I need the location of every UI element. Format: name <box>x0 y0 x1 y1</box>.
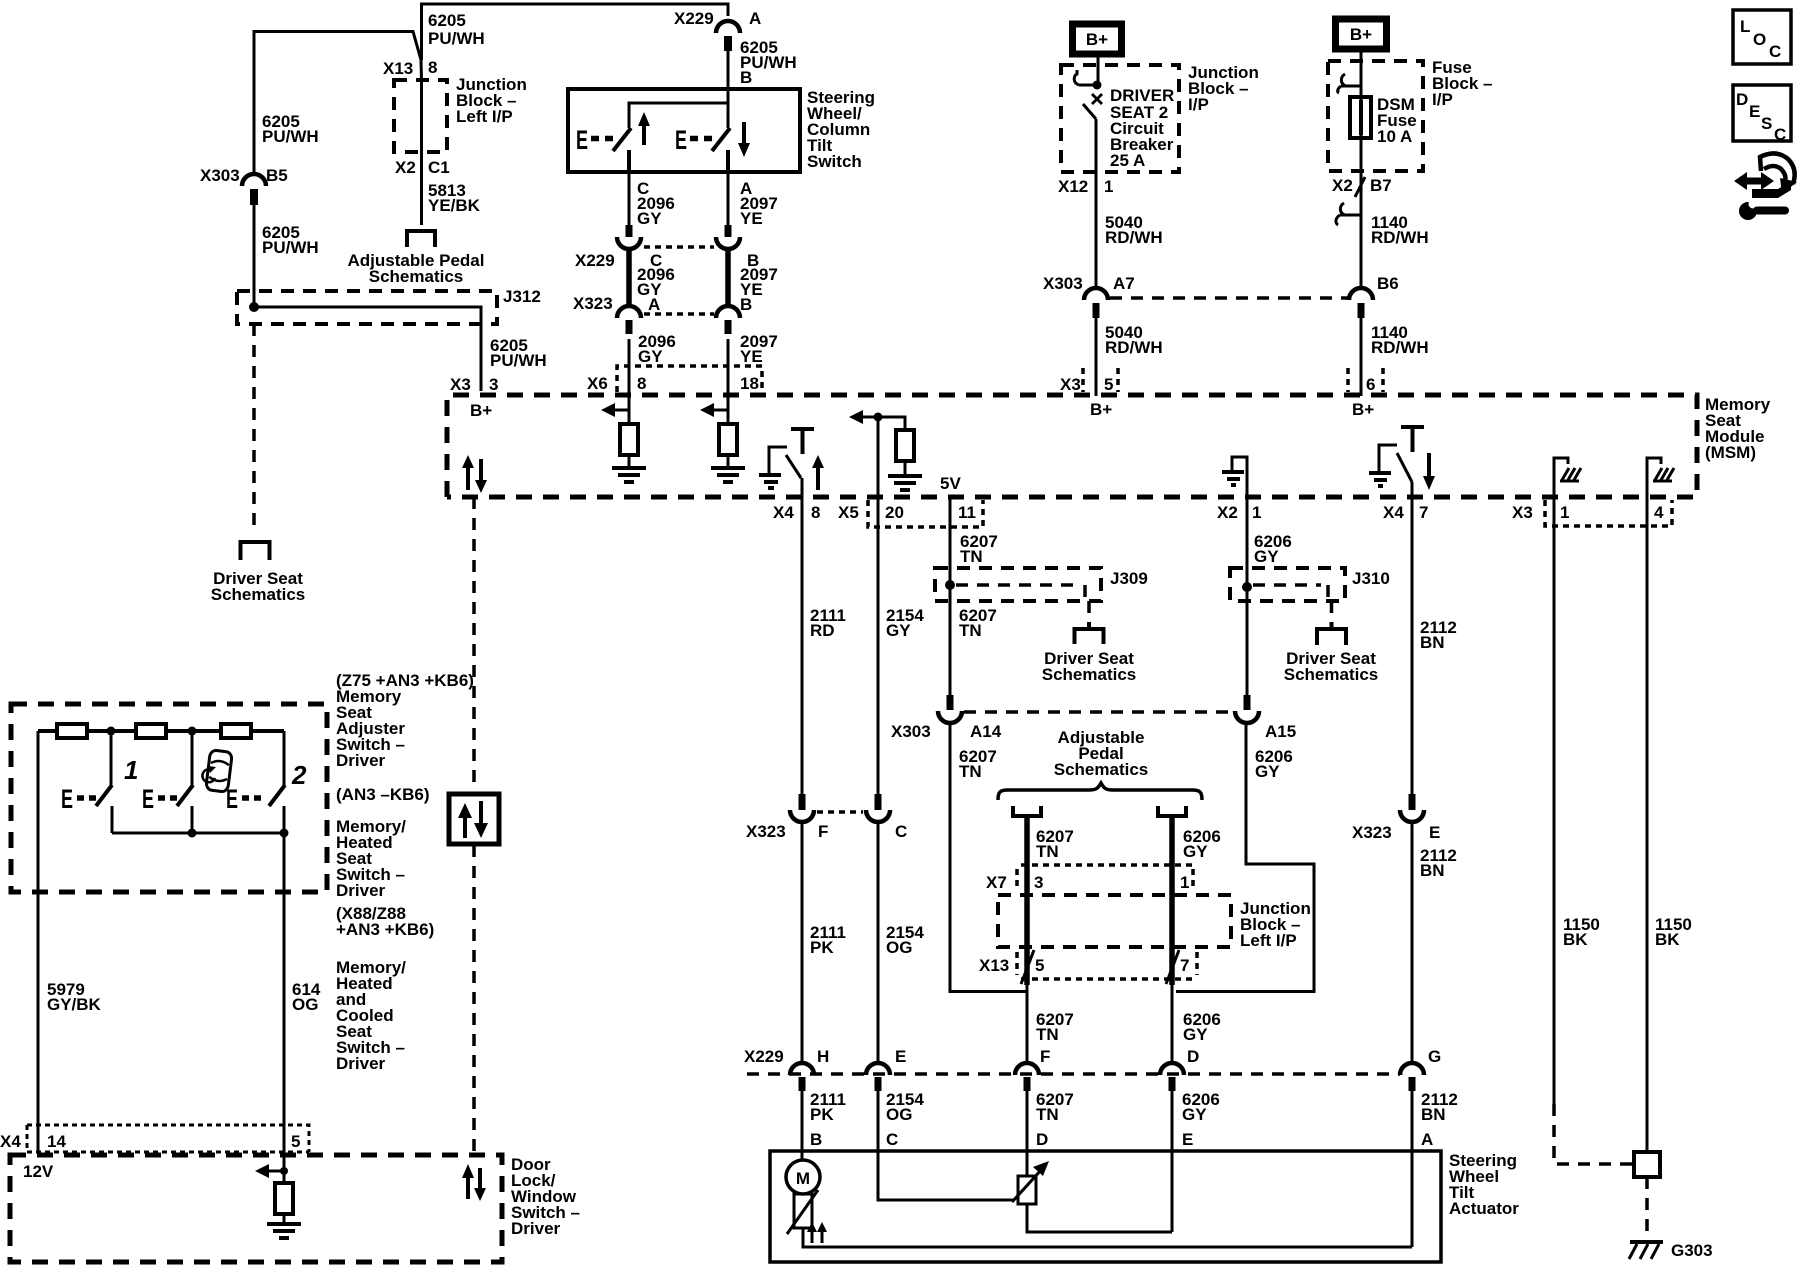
actuator motor M <box>786 1160 820 1194</box>
svg-text:18: 18 <box>740 374 759 393</box>
wire stub 2097 between connectors <box>725 248 731 307</box>
svg-text:E: E <box>142 784 154 814</box>
connector X229 row labels <box>575 251 759 270</box>
label DRIVER SEAT 2 Circuit Breaker 25 A <box>1110 86 1174 170</box>
svg-text:Schematics: Schematics <box>369 267 464 286</box>
svg-text:I/P: I/P <box>1432 90 1453 109</box>
label 6206 GY E <box>1182 1090 1220 1149</box>
fork from pedal schematics (6207) <box>1013 806 1041 985</box>
wire 6205 PU/WH B into switch <box>727 51 730 89</box>
off-page fork Driver Seat Schematics (J310) <box>1317 622 1346 645</box>
connector X229 G arc <box>1400 1047 1441 1091</box>
connector X13 pin 8 labels <box>383 58 437 78</box>
svg-text:GY/BK: GY/BK <box>47 995 102 1014</box>
label 6205 PU/WH B <box>740 38 797 87</box>
svg-text:X13: X13 <box>979 956 1009 975</box>
connector X229 row label <box>744 1047 784 1066</box>
svg-text:X4: X4 <box>1383 503 1404 522</box>
svg-text:B7: B7 <box>1370 176 1392 195</box>
MSM switch at X4-7 with T contact and ground <box>1369 427 1424 497</box>
svg-text:X323: X323 <box>573 294 613 313</box>
wire 1140 RD/WH upper <box>1360 171 1363 289</box>
label G303 <box>1671 1241 1713 1260</box>
brace for Adjustable Pedal Schematics <box>998 783 1202 800</box>
svg-text:GY: GY <box>886 621 911 640</box>
svg-text:8: 8 <box>811 503 820 522</box>
splice J310 dashed box <box>1230 568 1345 601</box>
label (AN3 -KB6) <box>336 785 430 804</box>
splice J312 junction dot <box>249 302 259 312</box>
label 2112 BN (lower) <box>1420 846 1457 880</box>
svg-text:E: E <box>1182 1130 1193 1149</box>
label 6207 TN (below A14) <box>959 747 997 781</box>
svg-text:A: A <box>648 295 660 314</box>
connector X12 pin 1 labels <box>1058 177 1113 196</box>
connector X2 B7 labels with slash <box>1332 176 1392 197</box>
label 5979 GY/BK <box>47 980 102 1014</box>
svg-text:X13: X13 <box>383 59 413 78</box>
MSM arrow up at X4-8 <box>812 455 824 490</box>
MSM ground at X2-1 <box>1222 457 1247 497</box>
svg-text:B+: B+ <box>470 401 492 420</box>
label B+ at MSM X3-3 <box>470 401 492 420</box>
label Driver Seat Schematics (J309) <box>1042 649 1137 684</box>
svg-text:A7: A7 <box>1113 274 1135 293</box>
wire 2096 GY from switch <box>628 172 631 228</box>
label Door Lock/ Window Switch - Driver <box>511 1155 580 1238</box>
wire 1150 BK (X3-1) <box>1554 497 1632 1164</box>
connector X229 C terminal <box>617 225 641 249</box>
MSM chassis stub at X3-4 <box>1647 458 1674 497</box>
wire stub 2096 between connectors <box>626 248 632 307</box>
svg-text:8: 8 <box>637 374 646 393</box>
up-down arrow box on dashed wire <box>449 794 499 844</box>
door lock window switch dashed box <box>10 1155 502 1262</box>
label C 2096 GY <box>637 179 675 228</box>
connector X303 B5 labels <box>200 166 288 185</box>
fuse terminal hook upper <box>1338 74 1361 93</box>
svg-text:X12: X12 <box>1058 177 1088 196</box>
MSM switch at X4-8 with T contact and ground <box>759 429 814 497</box>
dashed link X323 A-B <box>644 312 714 316</box>
svg-text:PU/WH: PU/WH <box>262 127 319 146</box>
svg-text:RD/WH: RD/WH <box>1371 338 1429 357</box>
connector X6 pin labels <box>587 374 759 393</box>
svg-text:C: C <box>895 822 907 841</box>
actuator bottom bus wire <box>803 1228 1412 1247</box>
svg-text:Left I/P: Left I/P <box>1240 931 1297 950</box>
splice J312 dashed box <box>237 291 497 324</box>
svg-text:Left I/P: Left I/P <box>456 107 513 126</box>
svg-text:B+: B+ <box>1352 400 1374 419</box>
dashed link X303 A14-A15 <box>964 710 1232 714</box>
svg-text:X2: X2 <box>395 158 416 177</box>
wire internal feed to tilt-up switch <box>629 89 728 128</box>
svg-text:X323: X323 <box>1352 823 1392 842</box>
wire 6206 GY from J310 to X303 A15 <box>1246 587 1249 696</box>
dashed wire J309 to Driver Seat Schematics <box>1087 601 1091 624</box>
svg-text:1: 1 <box>1560 503 1569 522</box>
svg-text:OG: OG <box>292 995 318 1014</box>
wire 614 OG <box>283 833 286 1185</box>
dashed link X303 A7-B6 <box>1110 296 1348 300</box>
label (X88/Z88 +AN3 +KB6) <box>336 904 434 939</box>
svg-text:TN: TN <box>1036 1105 1059 1124</box>
MSM resistor to ground (wire 2096) <box>601 396 646 482</box>
svg-text:X303: X303 <box>891 722 931 741</box>
svg-text:C: C <box>886 1130 898 1149</box>
svg-text:X2: X2 <box>1217 503 1238 522</box>
svg-text:X3: X3 <box>450 375 471 394</box>
connector X3 pin 6 label <box>1348 368 1383 394</box>
svg-text:B+: B+ <box>1090 400 1112 419</box>
connector X229 pin A labels <box>674 9 761 28</box>
svg-text:YE: YE <box>740 209 763 228</box>
label (Z75 +AN3 +KB6) <box>336 671 474 690</box>
svg-text:1: 1 <box>1252 503 1261 522</box>
memory switch set (car icon) <box>142 731 193 833</box>
svg-text:B+: B+ <box>1086 30 1108 49</box>
connector X6 dashed sub-box <box>617 366 762 392</box>
wire 6207 TN to actuator D <box>1026 1091 1029 1176</box>
label 6206 GY (below A15) <box>1255 747 1293 781</box>
actuator potentiometer element <box>1018 1176 1172 1232</box>
wire 5979 GY/BK <box>37 731 40 1152</box>
connector X4 pin 8 labels <box>773 503 820 522</box>
connector X2 pin C1 labels <box>395 158 450 177</box>
wire 2112 BN to actuator A <box>1411 1091 1414 1247</box>
wire 2154 OG to X229 E <box>877 822 880 1064</box>
wire 6205 PU/WH from J312 to X3 pin 3 <box>254 307 481 391</box>
svg-text:G: G <box>1428 1047 1441 1066</box>
svg-text:S: S <box>1761 114 1772 133</box>
wire 6206 GY from X2-1 to J310 <box>1246 497 1249 587</box>
svg-text:C1: C1 <box>428 158 450 177</box>
switch tilt down (E contact) <box>675 125 730 155</box>
connector X13 row labels <box>979 952 1197 979</box>
MSM resistor to ground (wire 2097) <box>700 396 745 482</box>
connector X323 row label <box>573 294 613 313</box>
connector X3 pin 3 labels <box>450 375 498 394</box>
connector X229 H arc <box>790 1047 829 1091</box>
svg-text:1: 1 <box>1180 873 1189 892</box>
label Junction Block - Left I/P (lower) <box>1240 899 1311 950</box>
label Adjustable Pedal Schematics <box>348 251 485 286</box>
label wire 5813 YE/BK <box>428 181 481 215</box>
svg-text:20: 20 <box>885 503 904 522</box>
svg-text:8: 8 <box>428 58 437 77</box>
connector X7 pins labels <box>986 873 1189 892</box>
svg-text:7: 7 <box>1419 503 1428 522</box>
wire 5040 RD/WH lower to X3-5 <box>1095 318 1098 396</box>
door switch resistor to ground <box>255 1164 301 1238</box>
svg-text:X323: X323 <box>746 822 786 841</box>
svg-text:GY: GY <box>637 209 662 228</box>
label Adjustable Pedal Schematics <box>1054 728 1149 779</box>
svg-text:Driver: Driver <box>336 751 386 770</box>
label Memory/ Heated Seat Switch - Driver <box>336 817 406 900</box>
svg-text:E: E <box>576 125 588 155</box>
switch tilt up (E contact) <box>576 125 631 155</box>
svg-text:OG: OG <box>886 938 912 957</box>
connector X323 F C labels <box>746 822 907 841</box>
wire 5040 RD/WH upper <box>1095 172 1098 289</box>
svg-text:A15: A15 <box>1265 722 1296 741</box>
svg-text:RD/WH: RD/WH <box>1371 228 1429 247</box>
svg-text:F: F <box>818 822 828 841</box>
wire 6207 TN from J309 to X303 A14 <box>949 585 952 696</box>
label Memory Seat Adjuster Switch - Driver <box>336 687 405 770</box>
svg-text:GY: GY <box>1255 762 1280 781</box>
svg-text:B: B <box>740 68 752 87</box>
label Junction Block - I/P <box>1188 63 1259 114</box>
svg-text:PU/WH: PU/WH <box>490 351 547 370</box>
svg-text:BK: BK <box>1563 930 1588 949</box>
svg-text:PK: PK <box>810 938 834 957</box>
label DSM Fuse 10 A <box>1377 95 1417 146</box>
label 2097 YE B <box>740 265 778 314</box>
svg-text:4: 4 <box>1654 503 1664 522</box>
adjuster switch lower bus <box>112 829 289 838</box>
wire 2112 BN from X323 E to X229 G <box>1411 822 1414 1064</box>
svg-text:5: 5 <box>291 1132 300 1151</box>
fuse DSM 10A symbol <box>1350 51 1371 171</box>
label Fuse Block - I/P <box>1432 58 1492 109</box>
svg-text:X3: X3 <box>1512 503 1533 522</box>
label 6205 PU/WH (at X3 pin 3) <box>490 336 547 370</box>
svg-text:RD/WH: RD/WH <box>1105 228 1163 247</box>
connector X5 pins 20 11 labels <box>838 503 976 522</box>
svg-text:Driver: Driver <box>336 881 386 900</box>
connector X323 A arc <box>617 306 641 334</box>
svg-text:B5: B5 <box>266 166 288 185</box>
connector X2 pin 1 labels <box>1217 503 1261 522</box>
svg-text:E: E <box>675 125 687 155</box>
svg-text:L: L <box>1740 17 1750 36</box>
wire 2096 GY to X6-8 <box>628 339 631 396</box>
junction block I/P dashed box (circuit breaker) <box>1061 65 1179 172</box>
connector X323 B arc <box>716 306 740 334</box>
connector X229 D arc <box>1160 1047 1199 1091</box>
wire 6207 TN route into X13-5 from below <box>950 722 1034 992</box>
connector X229 E arc <box>866 1047 906 1091</box>
svg-text:5: 5 <box>1104 375 1113 394</box>
svg-text:E: E <box>61 784 73 814</box>
wire 2111 PK to X229 H <box>801 822 804 1064</box>
connector X3 pins 1 4 labels <box>1512 503 1664 522</box>
svg-text:6: 6 <box>1366 375 1375 394</box>
actuator position sensor wiper wire <box>878 1151 1049 1202</box>
label Junction Block - Left I/P <box>456 75 527 126</box>
label 6205 PU/WH (left upper) <box>262 112 319 146</box>
connector X4 pins 14 5 labels <box>0 1132 300 1151</box>
connector X3 pin 5 labels <box>1060 368 1118 394</box>
off-page fork to Adjustable Pedal Schematics <box>407 231 435 247</box>
svg-text:2: 2 <box>291 760 307 790</box>
wire 2111 PK to actuator B <box>801 1091 804 1160</box>
svg-text:PU/WH: PU/WH <box>428 29 485 48</box>
svg-text:BN: BN <box>1421 1105 1446 1124</box>
svg-text:B: B <box>740 295 752 314</box>
svg-text:A: A <box>749 9 761 28</box>
svg-text:D: D <box>1036 1130 1048 1149</box>
svg-text:Switch: Switch <box>807 152 862 171</box>
wire 6207 TN from X5-11 to J309 <box>949 497 952 585</box>
connector X229 A arc <box>716 21 740 51</box>
arrow down (tilt down) <box>738 122 750 157</box>
fuse terminal hook lower <box>1336 203 1361 225</box>
label 6205 PU/WH (top) <box>428 11 485 48</box>
actuator feedback rheostat <box>787 1190 818 1234</box>
label B+ at MSM X3-5 <box>1090 400 1112 419</box>
B+ power box 1 <box>1073 24 1122 54</box>
dashed wire to G303 <box>1645 1177 1649 1240</box>
label Memory Seat Module (MSM) <box>1705 395 1771 462</box>
label Driver Seat Schematics (J310) <box>1284 649 1379 684</box>
wire 2112 BN from X4-7 to X323 E <box>1411 497 1414 795</box>
memory seat module MSM dashed box <box>447 395 1697 497</box>
connector X229 row dashed line <box>747 1072 1400 1076</box>
svg-text:I/P: I/P <box>1188 95 1209 114</box>
connector X303 B5 arc <box>242 174 266 205</box>
label 5040 RD/WH (lower) <box>1105 323 1163 357</box>
svg-text:GY: GY <box>1183 842 1208 861</box>
label B+ at MSM X3-6 <box>1352 400 1374 419</box>
off-page fork Driver Seat Schematics (J309) <box>1075 622 1104 644</box>
label 6207 TN (below X13) <box>1036 1010 1074 1044</box>
wire 2154 GY from X5-20 to X323 C <box>877 497 880 795</box>
MSM chassis stub at X3-1 <box>1554 458 1581 497</box>
connector X3 sub-box pins 1 4 <box>1545 500 1672 526</box>
MSM internal up-down arrows (left) <box>462 455 487 493</box>
LOC reference box <box>1733 10 1791 64</box>
svg-text:GY: GY <box>1254 547 1279 566</box>
label J312 <box>503 287 541 306</box>
svg-text:GY: GY <box>1182 1105 1207 1124</box>
steering wheel tilt actuator box <box>770 1151 1441 1262</box>
label 2096 GY A <box>637 265 675 314</box>
actuator motion arrows <box>807 1222 827 1243</box>
label Driver Seat Schematics (left) <box>211 569 306 604</box>
svg-text:X7: X7 <box>986 873 1007 892</box>
svg-text:E: E <box>1429 823 1440 842</box>
label 2097 YE (lower) <box>740 332 778 366</box>
memory switch 2 <box>226 731 285 833</box>
svg-text:TN: TN <box>960 547 983 566</box>
switch output stubs <box>629 150 728 172</box>
svg-text:TN: TN <box>1036 1025 1059 1044</box>
connector X303 A7 labels <box>1043 274 1135 293</box>
svg-text:3: 3 <box>489 375 498 394</box>
label switch position 1 <box>124 755 138 785</box>
svg-text:Schematics: Schematics <box>211 585 306 604</box>
label 2111 PK B <box>810 1090 846 1149</box>
door switch up-down arrows <box>462 1164 486 1201</box>
svg-text:6205: 6205 <box>428 11 466 30</box>
svg-text:GY: GY <box>1183 1025 1208 1044</box>
svg-text:10 A: 10 A <box>1377 127 1412 146</box>
connector X323 F arc <box>790 794 814 822</box>
label A 2097 YE <box>740 179 778 228</box>
svg-text:Schematics: Schematics <box>1054 760 1149 779</box>
svg-text:D: D <box>1736 90 1748 109</box>
circuit breaker DRIVER SEAT 2 symbol <box>1074 56 1103 172</box>
svg-text:25 A: 25 A <box>1110 151 1145 170</box>
svg-text:M: M <box>796 1169 810 1188</box>
label 6206 GY (above J310) <box>1254 532 1292 566</box>
label 1140 RD/WH (lower) <box>1371 323 1429 357</box>
adjuster switch top bus with resistors <box>38 724 284 738</box>
svg-text:BN: BN <box>1420 861 1445 880</box>
svg-text:X2: X2 <box>1332 176 1353 195</box>
svg-text:X4: X4 <box>773 503 794 522</box>
svg-text:A14: A14 <box>970 722 1002 741</box>
label 614 OG <box>292 980 321 1014</box>
svg-text:G303: G303 <box>1671 1241 1713 1260</box>
connector X4 pin 7 labels <box>1383 503 1428 522</box>
svg-text:BK: BK <box>1655 930 1680 949</box>
wire 6206 GY below X13-7 <box>1171 985 1174 1064</box>
wire through junction block X13 <box>420 80 423 225</box>
label 12V <box>23 1162 54 1181</box>
fork from pedal schematics (6206) <box>1158 806 1186 985</box>
connector X323 E arc <box>1400 794 1424 822</box>
wire 6206 GY route into X13-7 from below <box>1166 722 1314 992</box>
svg-text:Driver: Driver <box>336 1054 386 1073</box>
svg-text:X303: X303 <box>1043 274 1083 293</box>
wire 1140 RD/WH lower to X3-6 <box>1360 318 1363 396</box>
svg-text:X5: X5 <box>838 503 859 522</box>
svg-text:F: F <box>1040 1047 1050 1066</box>
svg-text:TN: TN <box>959 762 982 781</box>
svg-text:X4: X4 <box>0 1132 21 1151</box>
svg-text:12V: 12V <box>23 1162 54 1181</box>
label 6207 TN (above A14) <box>959 606 997 640</box>
dashed wire J312 to Driver Seat Schematics <box>252 324 256 530</box>
label 2154 GY <box>886 606 924 640</box>
svg-text:GY: GY <box>638 347 663 366</box>
svg-text:5V: 5V <box>940 474 961 493</box>
label switch position 2 <box>291 760 307 790</box>
svg-text:YE/BK: YE/BK <box>428 196 481 215</box>
svg-text:RD/WH: RD/WH <box>1105 338 1163 357</box>
label 2154 OG C <box>886 1090 924 1149</box>
svg-text:5: 5 <box>1035 956 1044 975</box>
svg-text:OG: OG <box>886 1105 912 1124</box>
connector X323 E labels <box>1352 823 1440 842</box>
connector X5 sub-box <box>868 500 983 527</box>
ground splice box <box>1634 1152 1660 1177</box>
label 2112 BN A <box>1421 1090 1458 1149</box>
wire 2111 RD from X4-8 to X323 F <box>801 497 804 795</box>
wire 6207 TN below X13-5 <box>1026 985 1029 1064</box>
svg-text:11: 11 <box>958 503 976 522</box>
svg-text:Schematics: Schematics <box>1042 665 1137 684</box>
svg-text:A: A <box>1421 1130 1433 1149</box>
connector X7 row dashed line <box>1017 865 1193 890</box>
label 5V <box>940 474 961 493</box>
svg-text:E: E <box>226 784 238 814</box>
svg-text:J309: J309 <box>1110 569 1148 588</box>
svg-text:E: E <box>1749 102 1760 121</box>
dashed wire J310 to Driver Seat Schematics <box>1330 601 1334 624</box>
wire 6205 PU/WH below B5 <box>253 205 256 303</box>
connector X229 B terminal <box>716 225 740 249</box>
label 2154 OG <box>886 923 924 957</box>
label 6207 TN D <box>1036 1090 1074 1149</box>
splice J309 dashed box <box>935 568 1101 601</box>
memory seat adjuster switch dashed box <box>11 704 327 892</box>
